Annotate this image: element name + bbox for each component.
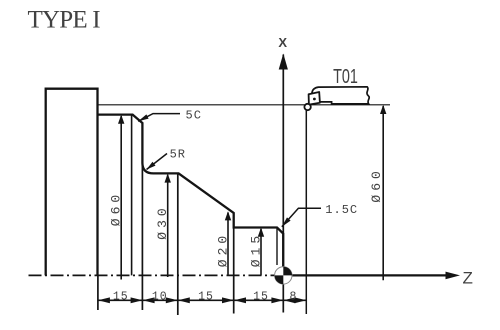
svg-text:T01: T01 [333,65,358,88]
svg-text:5C: 5C [186,109,202,123]
svg-text:1.5C: 1.5C [325,203,358,217]
svg-text:Ø60: Ø60 [108,191,123,226]
svg-text:5R: 5R [170,148,186,162]
svg-text:Ø20: Ø20 [215,232,230,267]
svg-text:15: 15 [113,290,129,303]
svg-text:Ø60: Ø60 [369,167,384,202]
svg-text:8: 8 [290,290,298,303]
svg-text:Ø30: Ø30 [155,204,170,239]
svg-text:15: 15 [253,290,269,303]
svg-text:Z: Z [463,269,473,288]
svg-text:10: 10 [152,290,168,303]
svg-text:Ø15: Ø15 [248,232,263,267]
svg-text:X: X [278,35,287,50]
svg-text:TYPE I: TYPE I [28,7,101,34]
svg-text:15: 15 [198,290,214,303]
